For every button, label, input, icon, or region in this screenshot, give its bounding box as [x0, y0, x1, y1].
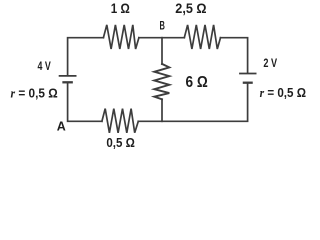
svg-text:4 V: 4 V	[38, 59, 51, 73]
svg-text:6 Ω: 6 Ω	[186, 74, 208, 91]
resistor R3 (0,5 ohm)	[102, 109, 138, 133]
resistor R4 (6 ohm, vertical)	[154, 64, 169, 99]
wire middle branch from node B down to resistor R4	[161, 38, 163, 64]
svg-text:r = 0,5 Ω: r = 0,5 Ω	[11, 85, 58, 100]
wire from R1 through node B to resistor R2	[139, 37, 184, 39]
svg-text:2,5 Ω: 2,5 Ω	[175, 1, 206, 16]
svg-text:1 Ω: 1 Ω	[111, 1, 130, 16]
resistor R1 (1 ohm)	[103, 25, 138, 49]
wire from R3 left through node A and up to battery V1	[68, 82, 102, 121]
wire from battery V1 positive terminal up and right to resistor R1	[68, 38, 104, 75]
wire middle branch from R4 down to bottom junction	[161, 99, 163, 121]
wire from battery V2 down and left along bottom to resistor R3	[138, 83, 247, 122]
svg-text:2 V: 2 V	[263, 56, 277, 70]
svg-text:A: A	[57, 120, 66, 134]
battery V1 (4 V) positive long plate	[60, 75, 76, 77]
resistor R2 (2,5 ohm)	[184, 25, 220, 49]
wire from R2 right and down to battery V2	[221, 38, 248, 73]
battery V2 (2 V) positive long plate	[240, 73, 256, 75]
svg-text:r = 0,5 Ω: r = 0,5 Ω	[260, 85, 306, 100]
svg-text:0,5 Ω: 0,5 Ω	[106, 135, 134, 150]
battery V2 (2 V) negative short plate	[244, 82, 252, 84]
battery V1 (4 V) negative short plate	[64, 81, 72, 83]
svg-text:B: B	[160, 21, 165, 33]
